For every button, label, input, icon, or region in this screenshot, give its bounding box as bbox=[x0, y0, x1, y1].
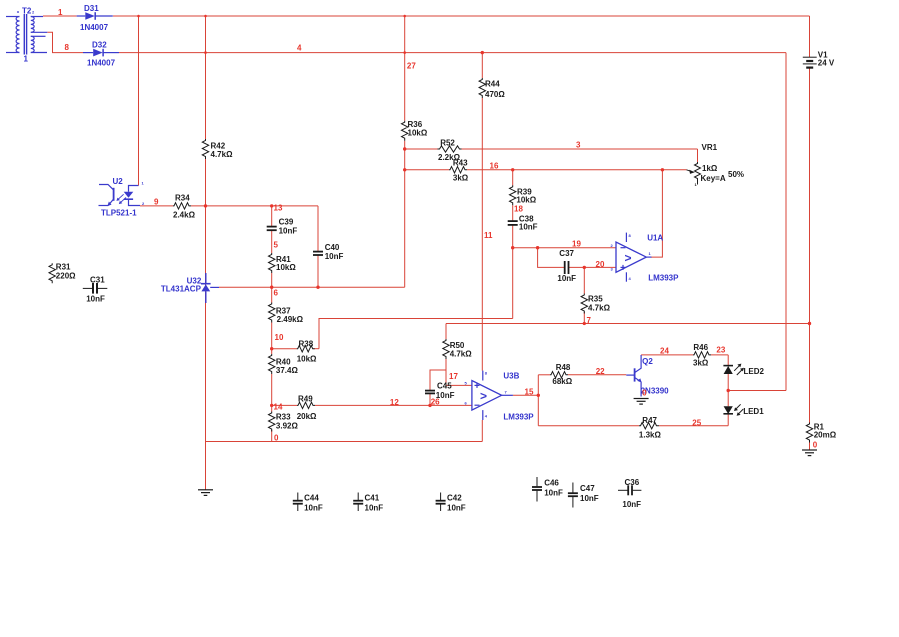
svg-text:C47: C47 bbox=[580, 484, 595, 493]
resistor R38 bbox=[297, 346, 315, 352]
transistor Q2 emitter arrow bbox=[637, 378, 641, 382]
svg-text:C44: C44 bbox=[304, 494, 319, 503]
svg-text:C40: C40 bbox=[325, 243, 340, 252]
svg-text:R46: R46 bbox=[693, 343, 708, 352]
svg-text:C37: C37 bbox=[559, 249, 574, 258]
svg-text:4.7kΩ: 4.7kΩ bbox=[450, 350, 473, 359]
svg-text:>: > bbox=[480, 389, 487, 403]
resistor R33 bbox=[269, 412, 275, 432]
svg-text:20mΩ: 20mΩ bbox=[814, 431, 837, 440]
svg-text:10nF: 10nF bbox=[622, 500, 641, 509]
svg-text:13: 13 bbox=[274, 204, 283, 213]
svg-text:0: 0 bbox=[274, 434, 279, 443]
svg-text:U1A: U1A bbox=[647, 234, 663, 243]
svg-text:4.7kΩ: 4.7kΩ bbox=[588, 304, 611, 313]
ground Q2 emitter bbox=[634, 399, 649, 405]
svg-text:C45: C45 bbox=[437, 382, 452, 391]
wire net24 Q2 collector row y354.9 bbox=[641, 354, 693, 356]
transformer T2 primary coil bbox=[16, 17, 19, 53]
svg-text:14: 14 bbox=[274, 402, 283, 411]
svg-text:10kΩ: 10kΩ bbox=[408, 129, 428, 138]
wire net16 horizontal y169.8 bbox=[405, 169, 449, 171]
resistor R1 bbox=[806, 423, 812, 443]
resistor R34 bbox=[173, 203, 191, 209]
svg-text:R35: R35 bbox=[588, 295, 603, 304]
potentiometer VR1 wiper arrow bbox=[687, 170, 695, 174]
wire net1 top rail y16 bbox=[43, 15, 77, 17]
svg-text:11: 11 bbox=[484, 231, 493, 240]
svg-text:37.4Ω: 37.4Ω bbox=[276, 366, 299, 375]
node dot net1/x404 bbox=[403, 15, 406, 18]
resistor R36 bbox=[402, 121, 408, 141]
svg-text:3: 3 bbox=[576, 141, 581, 150]
svg-text:R33: R33 bbox=[276, 413, 291, 422]
optocoupler U2 phototransistor bbox=[99, 185, 114, 206]
svg-text:10nF: 10nF bbox=[557, 274, 576, 283]
wire vertical x271.7 divider chain bbox=[271, 206, 273, 226]
JUNCTION_DOTS bbox=[137, 15, 811, 407]
svg-text:R49: R49 bbox=[298, 395, 313, 404]
WIRES_RED bbox=[43, 16, 810, 490]
resistor R52 bbox=[438, 146, 462, 152]
wire vertical x205.5 from net1 to ground bbox=[205, 16, 207, 139]
diode D31 bbox=[77, 12, 113, 20]
svg-text:C46: C46 bbox=[544, 479, 559, 488]
resistor R39 bbox=[510, 185, 516, 205]
svg-text:22: 22 bbox=[596, 367, 605, 376]
wire R38 branch bbox=[272, 348, 297, 350]
svg-text:3kΩ: 3kΩ bbox=[693, 359, 709, 368]
op-amp U3B plus sign bbox=[475, 383, 480, 388]
wire VR1 top drop bbox=[697, 149, 699, 162]
node dot LED junction bbox=[727, 389, 730, 392]
node dot net19/C38 branch bbox=[511, 246, 514, 249]
svg-text:8: 8 bbox=[65, 43, 70, 52]
wire C37 right to plus input bbox=[569, 266, 616, 268]
svg-text:10nF: 10nF bbox=[86, 294, 105, 303]
capacitor C45 bbox=[425, 391, 435, 394]
wire net9/13 horizontal y205.9 bbox=[140, 205, 173, 207]
transformer T2 primary lead top bbox=[6, 16, 20, 18]
wire R50 column bbox=[445, 324, 447, 340]
svg-text:0: 0 bbox=[642, 389, 647, 398]
capacitor C44 bbox=[297, 493, 299, 501]
svg-text:10nF: 10nF bbox=[279, 227, 298, 236]
svg-text:T2: T2 bbox=[22, 7, 32, 16]
svg-text:24 V: 24 V bbox=[818, 59, 835, 68]
op-amp U3B minus sign bbox=[475, 404, 480, 406]
resistor R42 bbox=[202, 139, 208, 159]
node dot net6/C40 bbox=[316, 286, 319, 289]
wire rail x786 down bbox=[785, 53, 787, 391]
wire U1A output up to net16 bbox=[651, 170, 662, 257]
transformer T2 secondary coil upper bbox=[31, 17, 34, 33]
svg-text:10nF: 10nF bbox=[304, 504, 323, 513]
capacitor C42 bbox=[440, 493, 442, 501]
svg-text:12: 12 bbox=[390, 398, 399, 407]
svg-text:68kΩ: 68kΩ bbox=[552, 377, 572, 386]
capacitor C38 bbox=[508, 221, 518, 225]
svg-text:7: 7 bbox=[587, 316, 592, 325]
svg-text:2.49kΩ: 2.49kΩ bbox=[277, 315, 304, 324]
wire battery bottom down to R1 bbox=[809, 68, 811, 423]
capacitor C47 bbox=[572, 483, 574, 493]
potentiometer VR1 body bbox=[695, 162, 701, 185]
svg-text:D31: D31 bbox=[84, 4, 99, 13]
svg-text:C31: C31 bbox=[90, 275, 105, 284]
optocoupler U2 light arrows bbox=[116, 194, 126, 204]
wire right rail to battery top bbox=[809, 16, 811, 57]
svg-text:1: 1 bbox=[24, 55, 29, 64]
svg-text:1: 1 bbox=[58, 8, 63, 17]
resistor R47 bbox=[639, 423, 659, 429]
svg-text:10nF: 10nF bbox=[447, 504, 466, 513]
resistor R44 bbox=[479, 78, 485, 98]
svg-text:470Ω: 470Ω bbox=[485, 90, 505, 99]
wire C45 branch bbox=[430, 370, 446, 390]
transformer T2 secondary lead top bbox=[31, 16, 43, 18]
svg-text:10nF: 10nF bbox=[580, 494, 599, 503]
node dot net4/x404 bbox=[403, 51, 406, 54]
wire U3B pin4 to ground rail bbox=[481, 420, 483, 442]
svg-text:U3B: U3B bbox=[503, 372, 519, 381]
svg-text:D32: D32 bbox=[92, 41, 107, 50]
svg-text:C41: C41 bbox=[365, 494, 380, 503]
shunt regulator U32 TL431 bbox=[201, 273, 219, 303]
svg-text:10kΩ: 10kΩ bbox=[516, 196, 536, 205]
svg-text:10nF: 10nF bbox=[436, 391, 455, 400]
capacitor C46 bbox=[536, 477, 538, 486]
op-amp U1A power pins bbox=[625, 233, 627, 282]
transistor Q2 bbox=[626, 355, 641, 397]
node dot net16 left bbox=[403, 168, 406, 171]
resistor R41 bbox=[269, 253, 275, 273]
node dot net26/C45 bbox=[428, 404, 431, 407]
wire U3B output net15 bbox=[513, 394, 538, 396]
svg-text:C42: C42 bbox=[447, 494, 462, 503]
wire net19 horizontal y247.7 bbox=[513, 247, 616, 249]
svg-text:220Ω: 220Ω bbox=[56, 272, 76, 281]
svg-text:1.3kΩ: 1.3kΩ bbox=[639, 431, 662, 440]
svg-text:3kΩ: 3kΩ bbox=[453, 173, 469, 182]
wire plus input U3B bbox=[446, 384, 472, 386]
wire output column x538.3 bbox=[537, 375, 539, 426]
svg-text:5: 5 bbox=[274, 241, 279, 250]
wire U2 anode drop x138.5 bbox=[138, 16, 140, 186]
resistor R46 bbox=[693, 352, 711, 358]
wire net6 horizontal y287.2 bbox=[219, 286, 405, 288]
wire transformer center tap to net4 bbox=[47, 32, 83, 52]
svg-text:C39: C39 bbox=[279, 218, 294, 227]
wire x482 rail R44 bbox=[481, 53, 483, 78]
svg-text:25: 25 bbox=[692, 418, 701, 427]
op-amp U1A minus sign bbox=[621, 247, 626, 249]
wire net7 horizontal y323.5 bbox=[446, 323, 810, 325]
capacitor C39 bbox=[267, 227, 277, 231]
ground bottom-left bbox=[198, 490, 213, 496]
transformer T2 primary lead bottom bbox=[6, 52, 20, 54]
svg-text:24: 24 bbox=[660, 347, 669, 356]
resistor R43 bbox=[449, 167, 467, 173]
op-amp U1A output stub bbox=[646, 256, 651, 258]
wire LED junction to rail x786 bbox=[728, 390, 786, 392]
node dot net4/R44 bbox=[481, 51, 484, 54]
capacitor C31 bbox=[83, 287, 92, 289]
svg-text:10kΩ: 10kΩ bbox=[297, 355, 317, 364]
resistor R35 bbox=[581, 294, 587, 314]
capacitor C40 bbox=[313, 252, 323, 255]
svg-text:23: 23 bbox=[716, 346, 725, 355]
ground below R1 bbox=[802, 450, 817, 456]
wire net12 horizontal y405.4 bbox=[272, 404, 297, 406]
svg-text:U2: U2 bbox=[113, 177, 124, 186]
op-amp U3B power pins bbox=[482, 371, 484, 420]
wire net25 row y425.7 bbox=[538, 425, 639, 427]
svg-text:10nF: 10nF bbox=[365, 504, 384, 513]
op-amp U1A triangle bbox=[616, 242, 646, 272]
resistor R31 bbox=[49, 263, 55, 283]
svg-text:10nF: 10nF bbox=[325, 252, 344, 261]
node dot net3 left bbox=[403, 147, 406, 150]
op-amp U3B triangle bbox=[472, 381, 502, 411]
svg-text:9: 9 bbox=[154, 198, 159, 207]
wire C37 branch left bbox=[538, 248, 564, 268]
svg-text:20: 20 bbox=[596, 260, 605, 269]
node dot net1/U2 bbox=[137, 15, 140, 18]
BLACK_LABELS bbox=[56, 51, 837, 513]
svg-text:4: 4 bbox=[297, 44, 302, 53]
svg-text:VR1: VR1 bbox=[702, 143, 718, 152]
transformer T2 secondary coil lower bbox=[31, 36, 34, 52]
node dot net4/x205 bbox=[204, 51, 207, 54]
TINY_PIN_NUMBERS bbox=[17, 9, 698, 419]
svg-text:1N4007: 1N4007 bbox=[87, 59, 116, 68]
node dot net13/C39 bbox=[270, 204, 273, 207]
svg-text:R52: R52 bbox=[440, 138, 455, 147]
diode D32 bbox=[83, 49, 119, 57]
svg-text:3.92Ω: 3.92Ω bbox=[276, 422, 299, 431]
svg-text:19: 19 bbox=[572, 240, 581, 249]
svg-text:10nF: 10nF bbox=[519, 223, 538, 232]
wire ground rail y441.5 bbox=[206, 441, 483, 443]
wire R1 bottom to ground bbox=[809, 441, 811, 450]
RED_NET_LABELS bbox=[58, 8, 818, 450]
capacitor C36 bbox=[618, 489, 628, 491]
svg-text:4.7kΩ: 4.7kΩ bbox=[211, 150, 234, 159]
resistor R49 bbox=[297, 402, 315, 408]
wire LED column bbox=[727, 355, 729, 366]
wire net4 rail y52.6 bbox=[119, 52, 786, 54]
node dot net19/C37 bbox=[536, 246, 539, 249]
BLACK_COMPONENTS bbox=[49, 78, 813, 511]
svg-text:Q2: Q2 bbox=[642, 357, 653, 366]
svg-text:TL431ACP: TL431ACP bbox=[161, 285, 202, 294]
node dot net20/R35 bbox=[583, 266, 586, 269]
svg-text:27: 27 bbox=[407, 62, 416, 71]
svg-text:LED2: LED2 bbox=[744, 367, 765, 376]
node dot net6/R41 bbox=[270, 286, 273, 289]
node dot net14 bbox=[270, 404, 273, 407]
svg-text:R43: R43 bbox=[453, 158, 468, 167]
svg-text:R47: R47 bbox=[642, 416, 657, 425]
node dot net1/x205 bbox=[204, 15, 207, 18]
svg-text:C36: C36 bbox=[625, 478, 640, 487]
svg-text:10kΩ: 10kΩ bbox=[276, 263, 296, 272]
svg-text:50%: 50% bbox=[728, 170, 744, 179]
resistor R48 bbox=[550, 372, 568, 378]
node dot net10 bbox=[270, 347, 273, 350]
BLUE_LABELS bbox=[22, 4, 679, 422]
svg-text:>: > bbox=[625, 251, 632, 265]
svg-text:1kΩ: 1kΩ bbox=[702, 164, 718, 173]
svg-text:R31: R31 bbox=[56, 263, 71, 272]
svg-text:15: 15 bbox=[525, 388, 534, 397]
svg-text:17: 17 bbox=[449, 372, 458, 381]
LED2 bbox=[723, 364, 744, 375]
resistor R40 bbox=[269, 354, 275, 374]
wire R35 column bbox=[583, 267, 585, 293]
node dot net7/R35 bbox=[583, 322, 586, 325]
svg-text:LM393P: LM393P bbox=[648, 274, 679, 283]
transformer T2 center tap lead bbox=[31, 31, 48, 33]
svg-text:1N4007: 1N4007 bbox=[80, 23, 109, 32]
resistor R37 bbox=[269, 303, 275, 323]
node dot net16/U1A out bbox=[661, 168, 664, 171]
svg-text:R38: R38 bbox=[299, 339, 314, 348]
node dot net7/battery rail bbox=[808, 322, 811, 325]
transformer T2 secondary lead bottom bbox=[31, 52, 47, 54]
node dot net13/R42 bbox=[204, 204, 207, 207]
optocoupler U2 emitter arrow bbox=[107, 202, 111, 207]
svg-text:0: 0 bbox=[813, 441, 818, 450]
svg-text:LED1: LED1 bbox=[743, 407, 764, 416]
svg-text:16: 16 bbox=[490, 162, 499, 171]
wire vertical x404.7 net27 bbox=[404, 16, 406, 121]
svg-text:6: 6 bbox=[274, 289, 279, 298]
node dot net16/R39 bbox=[511, 168, 514, 171]
resistor R50 bbox=[443, 339, 449, 359]
node dot net15 bbox=[537, 394, 540, 397]
op-amp U1A plus sign bbox=[621, 265, 626, 270]
capacitor C41 bbox=[357, 493, 359, 501]
wire net3 horizontal y149 bbox=[405, 148, 438, 150]
svg-text:Key=A: Key=A bbox=[701, 174, 726, 183]
svg-text:10: 10 bbox=[275, 333, 284, 342]
transformer T2 core bbox=[23, 14, 25, 55]
wire vertical x318 C40 branch bbox=[317, 206, 319, 251]
battery V1 bbox=[803, 57, 817, 67]
svg-text:10nF: 10nF bbox=[544, 489, 563, 498]
wire net22 R48 row y374.8 bbox=[538, 374, 550, 376]
svg-text:R48: R48 bbox=[556, 363, 571, 372]
svg-text:2.4kΩ: 2.4kΩ bbox=[173, 211, 196, 220]
svg-text:TLP521-1: TLP521-1 bbox=[101, 209, 137, 218]
svg-text:20kΩ: 20kΩ bbox=[297, 412, 317, 421]
wire vertical x512.7 R39/C38 chain bbox=[512, 170, 514, 186]
transformer T2 stub lead bbox=[31, 35, 46, 37]
svg-text:R34: R34 bbox=[175, 194, 190, 203]
op-amp U3B output stub bbox=[502, 394, 513, 396]
LED1 bbox=[723, 404, 743, 416]
svg-text:LM393P: LM393P bbox=[503, 413, 534, 422]
optocoupler U2 LED bbox=[124, 186, 140, 206]
svg-text:R44: R44 bbox=[485, 80, 500, 89]
capacitor C37 bbox=[565, 261, 569, 274]
svg-text:18: 18 bbox=[514, 205, 523, 214]
